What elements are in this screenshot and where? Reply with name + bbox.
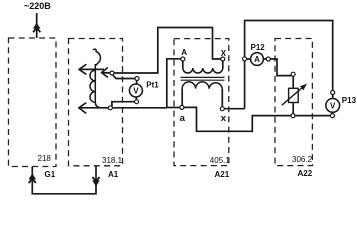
svg-text:A: A — [181, 48, 187, 57]
svg-text:218: 218 — [38, 154, 52, 163]
svg-text:V: V — [330, 101, 336, 110]
svg-text:~220B: ~220B — [24, 1, 51, 11]
svg-text:x: x — [221, 113, 227, 124]
svg-text:V: V — [133, 86, 139, 95]
svg-text:Pt1: Pt1 — [146, 81, 159, 90]
svg-text:306.2: 306.2 — [292, 155, 313, 164]
svg-text:P13: P13 — [342, 96, 357, 105]
svg-text:A21: A21 — [215, 170, 230, 179]
svg-text:318.1: 318.1 — [102, 156, 123, 165]
svg-text:P12: P12 — [251, 43, 266, 52]
svg-text:A1: A1 — [108, 170, 119, 179]
svg-text:A22: A22 — [298, 169, 313, 178]
svg-text:A: A — [254, 55, 260, 64]
svg-text:a: a — [180, 113, 186, 124]
svg-text:X: X — [221, 49, 227, 58]
svg-text:405.1: 405.1 — [210, 156, 231, 165]
svg-text:G1: G1 — [45, 170, 56, 179]
